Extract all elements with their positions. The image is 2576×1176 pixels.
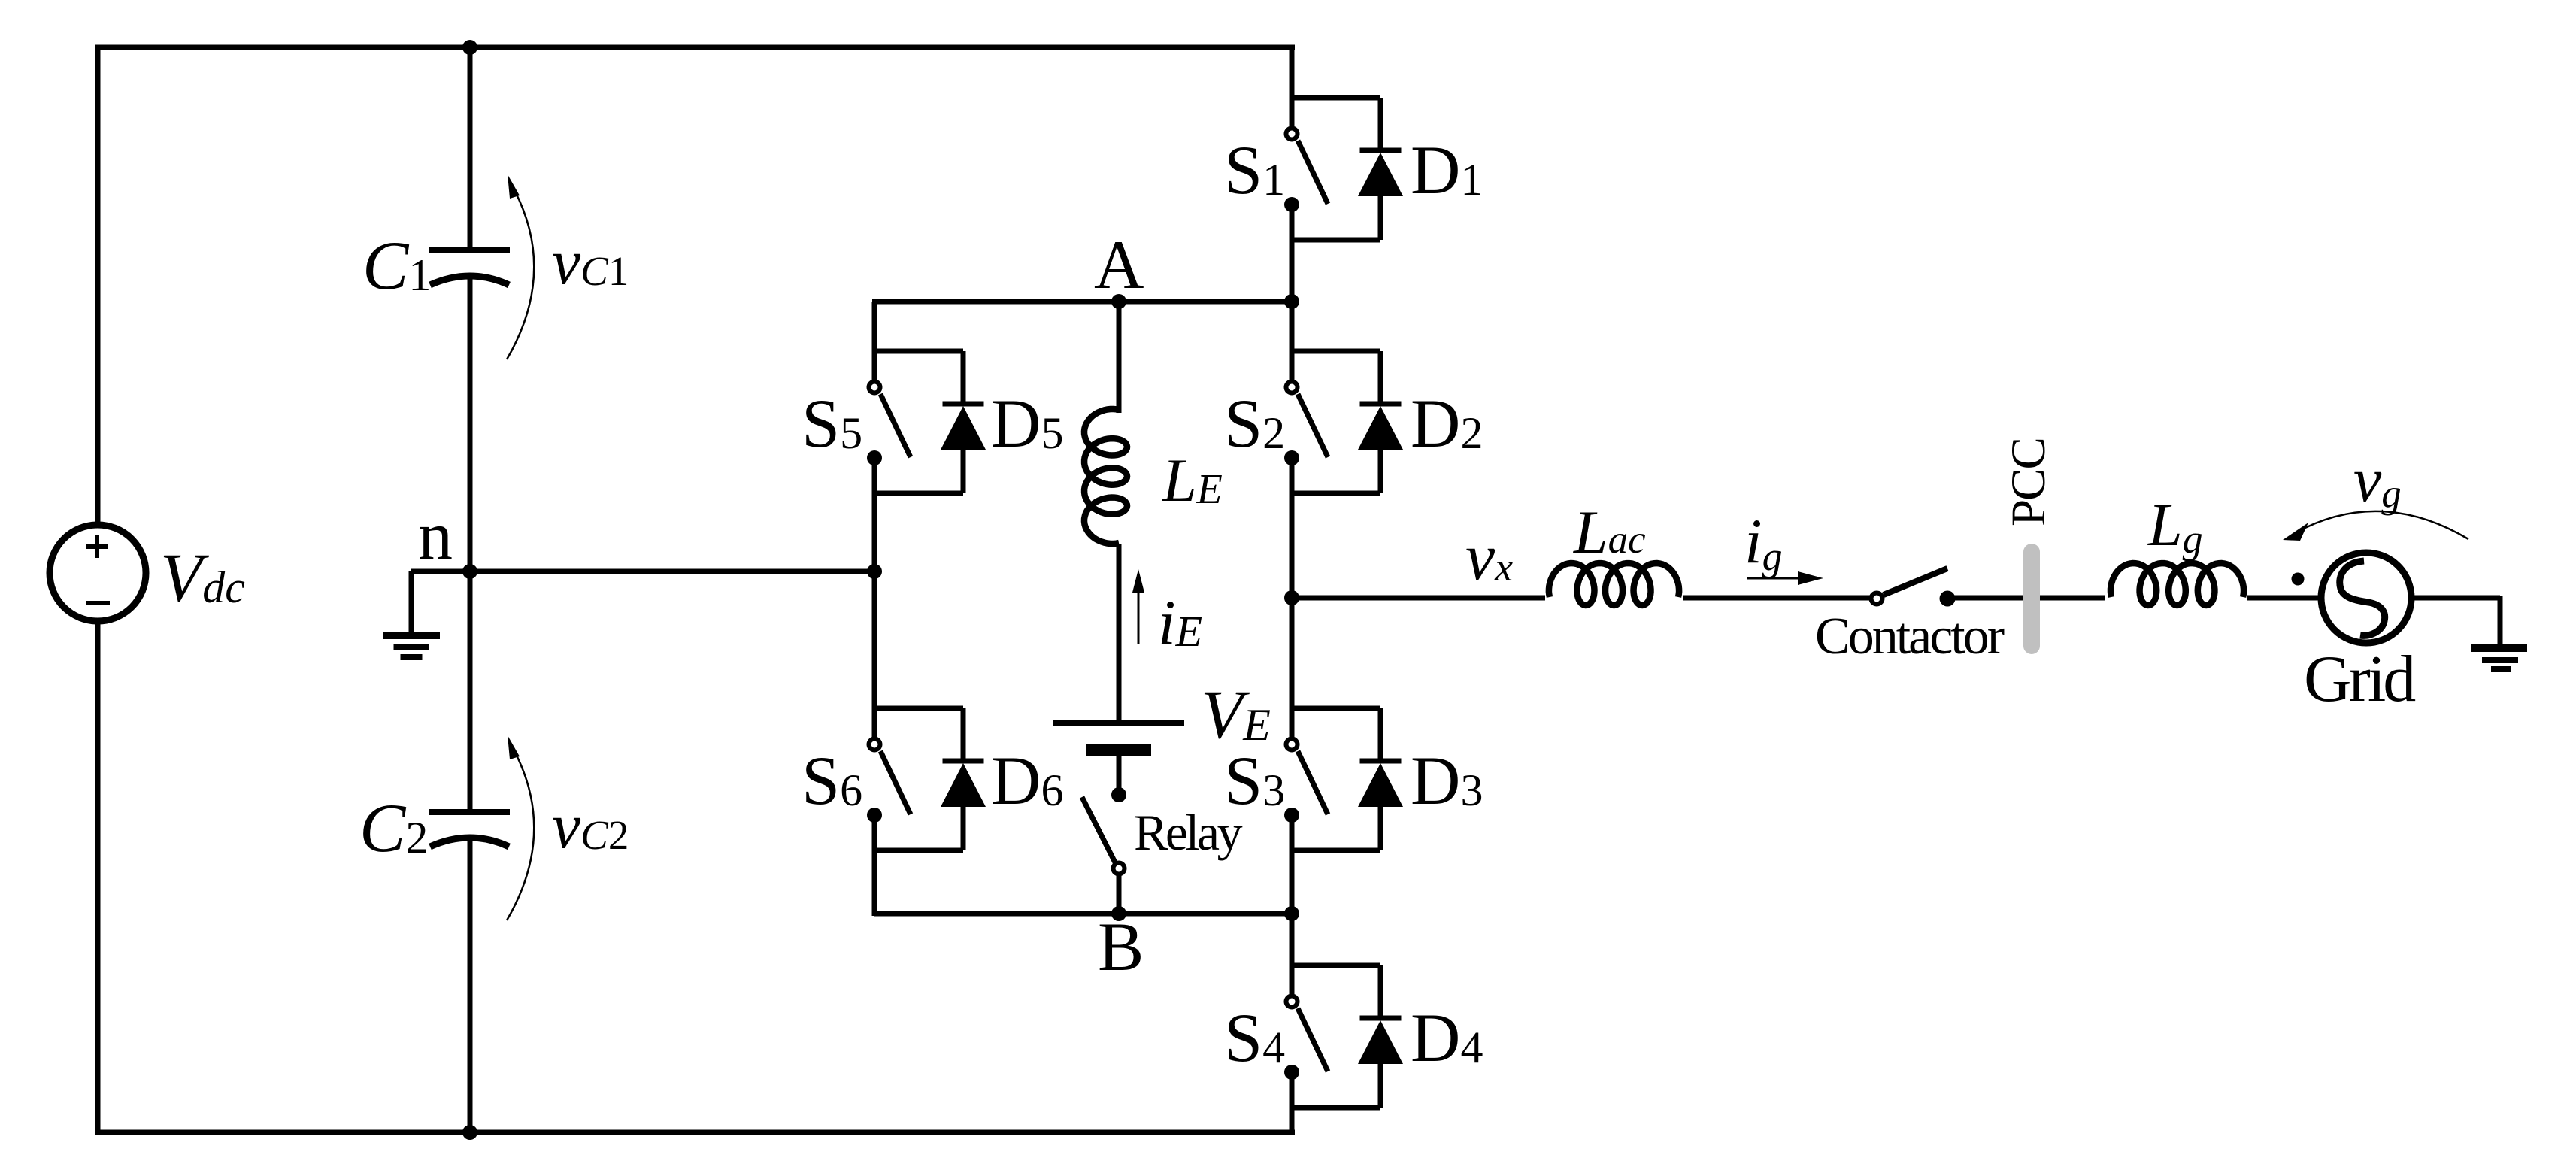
node node B / right leg bbox=[1284, 906, 1299, 921]
wire S1/D1 branch frame bbox=[1290, 98, 1380, 240]
svg-text:n: n bbox=[418, 497, 453, 574]
wire ground drop bbox=[2498, 596, 2503, 648]
diode D6 bbox=[941, 708, 986, 850]
wire S1 to node A bbox=[1290, 240, 1295, 302]
svg-text:D4: D4 bbox=[1411, 999, 1483, 1076]
voltage arc vg bbox=[2283, 511, 2468, 541]
node bottom bus / C-leg junction bbox=[462, 1125, 477, 1140]
switch S4 bbox=[1284, 965, 1328, 1108]
diode D5 bbox=[941, 351, 986, 493]
wire S2 to node vx bbox=[1290, 493, 1295, 598]
wire node B horizontal bbox=[874, 911, 1292, 917]
node node B / relay branch bbox=[1111, 906, 1126, 921]
polarity dot bbox=[2292, 573, 2305, 586]
AC source Grid bbox=[2321, 553, 2411, 643]
svg-text:PCC: PCC bbox=[2002, 438, 2056, 526]
svg-text:C1: C1 bbox=[362, 227, 431, 304]
wire A to LE bbox=[1117, 302, 1122, 413]
svg-text:Grid: Grid bbox=[2304, 643, 2415, 716]
node node vx bbox=[1284, 590, 1299, 605]
voltage source Vdc bbox=[50, 525, 146, 621]
capacitor C2 bbox=[429, 812, 510, 847]
svg-text:S2: S2 bbox=[1224, 385, 1285, 462]
svg-text:S6: S6 bbox=[802, 742, 862, 819]
wire left wire lower bbox=[95, 622, 101, 1132]
voltage arrow vC1 bbox=[507, 174, 534, 359]
ground at grid bbox=[2471, 648, 2527, 669]
current arrow ig bbox=[1747, 571, 1823, 585]
capacitor C1 bbox=[429, 250, 510, 285]
node top bus / C-leg junction bbox=[462, 40, 477, 55]
svg-text:vg: vg bbox=[2353, 445, 2402, 516]
wire left leg top bbox=[872, 302, 877, 351]
switch S2 bbox=[1284, 351, 1328, 493]
svg-text:Contactor: Contactor bbox=[1815, 608, 2005, 665]
svg-text:iE: iE bbox=[1158, 587, 1202, 658]
current arrow iE bbox=[1132, 569, 1144, 644]
wire vx to Lac bbox=[1292, 596, 1545, 601]
wire left leg middle bbox=[872, 493, 877, 708]
wire left leg bottom bbox=[872, 850, 877, 916]
wire vx to S3 bbox=[1290, 598, 1295, 708]
inductor Lac bbox=[1549, 563, 1679, 605]
svg-text:ig: ig bbox=[1744, 506, 1783, 579]
diode D2 bbox=[1358, 351, 1403, 493]
svg-text:D3: D3 bbox=[1411, 742, 1483, 819]
wire C-leg below C2 bbox=[468, 838, 473, 1132]
wire C-leg between n and C2 bbox=[468, 571, 473, 812]
node node A / LE branch bbox=[1111, 294, 1126, 309]
wire bottom DC bus bbox=[95, 1130, 1295, 1135]
wire S5/D5 branch frame bbox=[872, 351, 963, 493]
wire n ground stub bbox=[411, 569, 473, 574]
svg-text:S4: S4 bbox=[1224, 999, 1285, 1076]
wire left wire upper bbox=[95, 47, 101, 525]
wire Lg to grid bbox=[2247, 596, 2323, 601]
wire right leg top bbox=[1290, 45, 1295, 98]
svg-text:D2: D2 bbox=[1411, 385, 1483, 462]
inductor LE bbox=[1084, 409, 1127, 544]
svg-text:Vdc: Vdc bbox=[160, 539, 245, 616]
wire S6/D6 branch frame bbox=[872, 708, 963, 850]
svg-text:S5: S5 bbox=[802, 385, 862, 462]
wire S3/D3 branch frame bbox=[1290, 708, 1380, 850]
svg-text:D6: D6 bbox=[991, 742, 1063, 819]
ground at node n bbox=[383, 571, 440, 657]
diode D1 bbox=[1358, 98, 1403, 240]
node node n bbox=[462, 564, 477, 579]
wire S2/D2 branch frame bbox=[1290, 351, 1380, 493]
switch S6 bbox=[867, 708, 911, 850]
voltage arrow vC2 bbox=[507, 735, 534, 920]
svg-text:Relay: Relay bbox=[1134, 804, 1243, 861]
wire node B to S4 bbox=[1290, 914, 1295, 965]
svg-text:S1: S1 bbox=[1224, 132, 1285, 208]
diode D3 bbox=[1358, 708, 1403, 850]
node left leg midpoint bbox=[867, 564, 882, 579]
switch S1 bbox=[1284, 98, 1328, 240]
svg-text:VE: VE bbox=[1201, 676, 1271, 753]
wire n to left leg bbox=[470, 569, 874, 574]
svg-text:vC1: vC1 bbox=[552, 226, 629, 298]
svg-text:vx: vx bbox=[1465, 521, 1513, 594]
PCC bar bbox=[2023, 544, 2040, 654]
contactor switch bbox=[1871, 568, 1956, 607]
battery VE bbox=[1053, 723, 1184, 795]
relay switch bbox=[1082, 787, 1126, 916]
svg-text:D5: D5 bbox=[991, 385, 1063, 462]
wire C-leg between C1 and n bbox=[468, 276, 473, 571]
svg-text:Lg: Lg bbox=[2147, 490, 2203, 562]
switch S5 bbox=[867, 351, 911, 493]
svg-text:A: A bbox=[1094, 226, 1144, 303]
wire node A to S2 bbox=[1290, 302, 1295, 351]
svg-text:Lac: Lac bbox=[1573, 498, 1646, 566]
wire LE to VE bbox=[1117, 544, 1122, 720]
switch S3 bbox=[1284, 708, 1328, 850]
wire S4/D4 branch frame bbox=[1290, 965, 1380, 1108]
svg-text:C2: C2 bbox=[359, 790, 428, 866]
wire S4 to bottom bus bbox=[1290, 1108, 1295, 1132]
svg-text:vC2: vC2 bbox=[552, 790, 629, 862]
wire contactor to Lg bbox=[1947, 596, 2105, 601]
svg-text:D1: D1 bbox=[1411, 132, 1483, 208]
wire S3 to node B bbox=[1290, 850, 1295, 914]
diode D4 bbox=[1358, 965, 1403, 1108]
wire C-leg above C1 bbox=[468, 47, 473, 250]
inductor Lg bbox=[2111, 563, 2244, 605]
svg-text:LE: LE bbox=[1162, 446, 1223, 514]
wire node A horizontal bbox=[872, 299, 1292, 305]
wire Lac to contactor bbox=[1683, 596, 1870, 601]
wire grid to ground bbox=[2411, 596, 2500, 601]
wire top DC bus bbox=[95, 45, 1295, 50]
node node A / right leg bbox=[1284, 294, 1299, 309]
